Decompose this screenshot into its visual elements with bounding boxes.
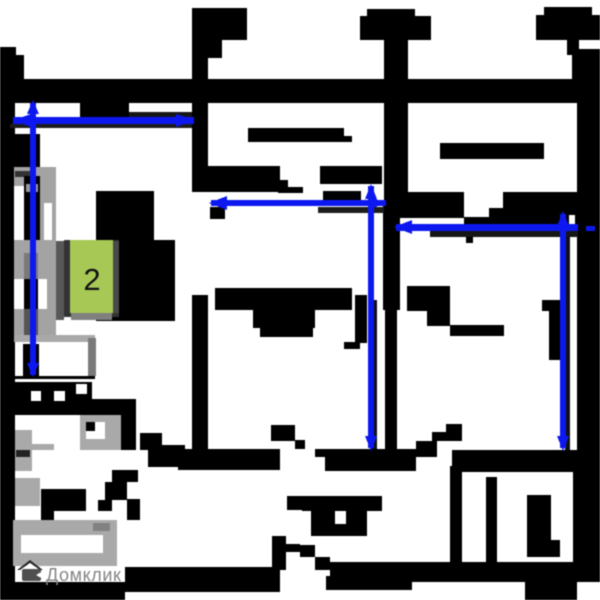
wall: bathroom band	[0, 382, 92, 415]
bedroom gray window column	[15, 478, 40, 506]
wall: black mass A	[96, 191, 154, 240]
wall: door blob bottom-right	[527, 495, 551, 557]
wall: vertical wall x192 upper	[192, 8, 208, 192]
wall: window pier left room	[80, 103, 129, 127]
svg-text:2: 2	[83, 262, 100, 297]
wall: middle dim baseline	[318, 207, 384, 213]
dim blue: right room horizontal line	[396, 224, 578, 231]
wall: mid top stub cap	[367, 9, 415, 16]
dim blue: left room horizontal line	[13, 100, 595, 451]
dim blue: left room vertical line	[30, 103, 36, 375]
wall: middle balcony wall left part	[207, 166, 280, 192]
svg-text:Домклик: Домклик	[46, 565, 122, 585]
wall: central vertical wall middle	[383, 205, 400, 310]
wall: bottom band left	[0, 582, 125, 600]
wall: left outer wall upper stub	[0, 47, 16, 79]
wall: right dim baseline	[430, 231, 578, 237]
room 2 marker: dark frame	[64, 240, 119, 317]
wall: right bottom band	[452, 450, 600, 472]
wall: black mass B	[96, 240, 175, 321]
wall: right outer wall strip	[577, 40, 600, 582]
dim blue: middle room vertical line	[368, 186, 374, 448]
wall: diagonal from x192 wall down	[140, 433, 162, 450]
wall: right wall inner edge bottom	[573, 471, 578, 582]
wall: middle balcony wall right part	[320, 166, 382, 184]
wall: bedroom top wall	[41, 489, 86, 511]
wall: top-right room bottom wall steps	[407, 286, 450, 311]
wall: diagonal below bath column	[112, 470, 138, 482]
room 2 marker: shade column left	[56, 241, 64, 320]
wall: angled wall right of central	[400, 192, 464, 218]
wall: middle room lower-left wall	[215, 288, 352, 310]
wall: left dimension baseline	[10, 124, 195, 128]
wall: central vertical wall lower	[385, 310, 397, 450]
wall: top main horizontal wall	[0, 79, 600, 103]
wall: hallway blob center bottom	[287, 496, 302, 510]
wall: central vertical wall upper	[384, 16, 408, 205]
dim blue: right room vertical line	[560, 214, 566, 448]
wall: stub block at x192 top	[192, 8, 247, 40]
wall: bottom-right pocket columns	[450, 466, 462, 570]
wall: right room window sill bar	[440, 143, 544, 159]
wall: left outer wall column	[0, 103, 15, 583]
bathroom fixtures gray	[15, 430, 32, 471]
wall: pilaster right room	[542, 300, 560, 311]
wall: middle room window sill bar	[248, 128, 344, 142]
watermark: house icon	[17, 560, 43, 570]
wall: vertical wall x192 lower	[192, 295, 208, 450]
wall: middle room bottom wall	[315, 449, 416, 457]
wall: middle vertical dim baseline	[372, 300, 377, 450]
balcony left: gray strip	[14, 167, 56, 342]
wall: right top cap	[544, 7, 592, 15]
wall: door jamb left of middle room bottom wall	[271, 425, 295, 441]
dim blue: middle room horizontal line	[211, 200, 386, 206]
wall: right vertical dim baseline	[565, 236, 570, 450]
wall: bottom band right	[330, 562, 600, 582]
wall: left sill block above balcony	[0, 134, 40, 167]
balcony bottom white area	[14, 335, 95, 342]
bedroom bed gray outline	[13, 520, 117, 566]
notch: bathroom band windows	[31, 391, 41, 401]
room 2 marker: green fill	[70, 240, 113, 313]
